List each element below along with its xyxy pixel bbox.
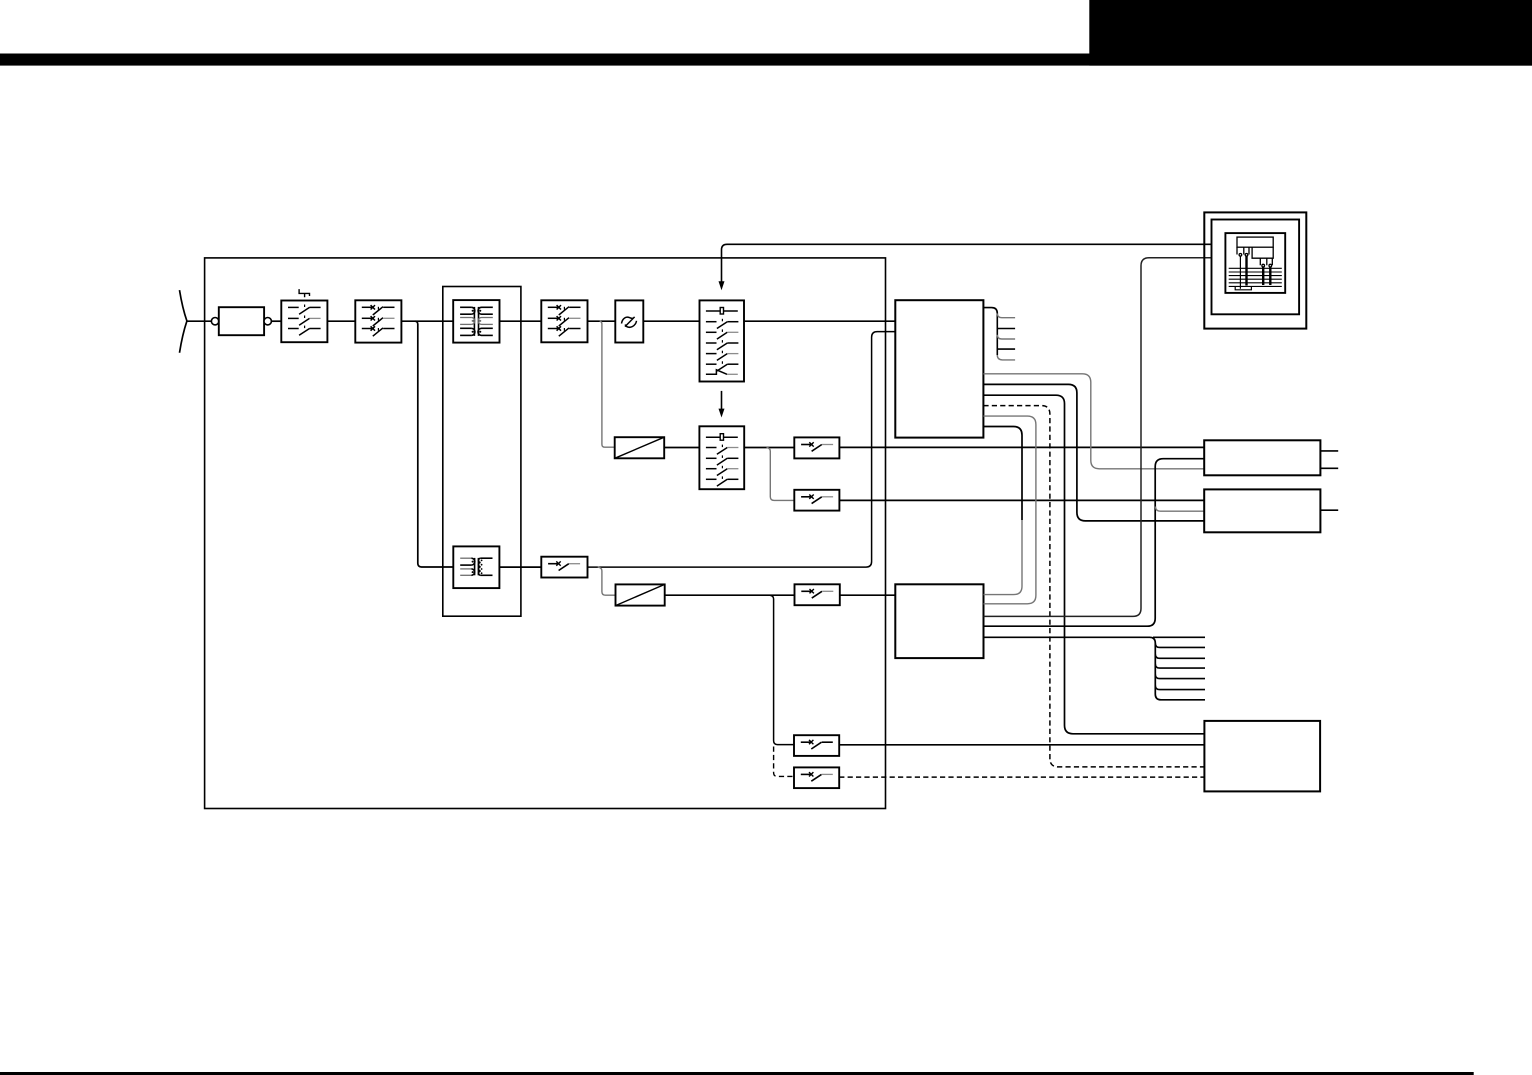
- upper unit pin fan: [983, 308, 1015, 360]
- relay SW2: [794, 490, 839, 511]
- wire: antenna to input connector: [187, 320, 212, 322]
- wire: S3 to regulator: [588, 320, 616, 322]
- wire: T2 to switch S4: [499, 566, 541, 568]
- switch S4: [541, 557, 587, 578]
- relay SW3: [795, 584, 840, 605]
- wire: branch to relay SW2: [767, 448, 795, 501]
- wire: S1 to S2: [327, 320, 355, 322]
- receiver box 2 stub: [1320, 509, 1338, 511]
- wire: lower unit to pin comb: [984, 637, 1206, 700]
- switch block A (6-pole tall): [700, 300, 745, 381]
- wire: dashed branch down to relay SW5: [774, 747, 794, 777]
- header rule bar: [0, 54, 1532, 66]
- receiver box 1 stubs: [1320, 451, 1338, 468]
- wire: branch chain to rectifier D1: [600, 321, 615, 447]
- monitor screen box: [1225, 233, 1285, 293]
- rectifier D2: [616, 584, 665, 605]
- wire: B to relay SW1: [744, 447, 794, 449]
- wire: T1 to S3: [500, 320, 542, 322]
- wire: branch down to relay SW4: [770, 595, 794, 744]
- wire bundle 2: upper unit to receiver box 2: [983, 384, 1204, 521]
- wire: gray stub into receiver box 2: [1156, 507, 1205, 512]
- wire: SW1 to receiver box 1: [839, 446, 1204, 448]
- wire: switch block A to upper unit: [744, 320, 895, 322]
- output connector circle: [264, 318, 271, 325]
- wire: S4 right then up to upper unit second input: [588, 332, 896, 567]
- input connector circle: [211, 318, 218, 325]
- disconnect switch S3 (3-pole with x contacts): [541, 300, 587, 342]
- header black title block: [1089, 0, 1532, 66]
- antenna: [180, 290, 187, 353]
- monitor unit inner box: [1212, 220, 1300, 315]
- wire: SW2 to receiver box 2: [839, 499, 1204, 501]
- wire: SW3 to lower unit: [840, 594, 896, 596]
- wire bundle 1: upper unit to receiver box 1 (gray): [983, 374, 1204, 469]
- relay SW5: [794, 767, 839, 788]
- wire bundle 6: down to lower unit: [983, 427, 1022, 521]
- rectifier D1: [615, 437, 665, 458]
- monitor screen diagram: [1229, 237, 1282, 290]
- line filter box: [219, 307, 264, 335]
- disconnect switch S2 (3-pole with x contacts): [355, 300, 401, 342]
- transformer enclosure: [443, 287, 521, 617]
- switch block B (4-pole tall): [699, 426, 744, 489]
- wire bundle 5: gray down to lower unit: [983, 416, 1036, 604]
- relay SW1: [794, 437, 839, 458]
- wire: S2 to transformer T1: [401, 320, 453, 322]
- wire bundle 3: upper unit to receiver box 3: [983, 395, 1204, 734]
- wire: lower unit up to monitor box (gray riser): [984, 258, 1211, 617]
- wire: lower unit up to receiver box 1: [984, 459, 1205, 627]
- wire: dashed SW5 to receiver box 3: [839, 776, 1204, 778]
- receiver box 1: [1204, 440, 1320, 475]
- wire: SW4 to receiver box 3: [839, 744, 1204, 746]
- transformer T2: [453, 546, 499, 588]
- pin comb stubs: [1153, 637, 1205, 689]
- wire: D1 to switch block B: [664, 447, 699, 449]
- wire: chain junction down to transformer T2: [415, 321, 453, 567]
- relay SW4: [794, 735, 839, 756]
- receiver box 2: [1204, 489, 1320, 532]
- breaker S1 (3-pole switch with trip symbol): [281, 289, 327, 342]
- transformer T1: [453, 300, 499, 343]
- lower unit box: [895, 584, 983, 658]
- upper unit box: [895, 300, 983, 437]
- monitor unit outer box: [1204, 212, 1306, 328]
- wire: D2 to relay SW3: [665, 594, 795, 596]
- main enclosure: [205, 258, 886, 809]
- wire: regulator to switch block A: [643, 320, 699, 322]
- receiver box 3: [1204, 721, 1320, 792]
- regulator box (script x symbol): [615, 300, 643, 342]
- wire: branch row3 down to rectifier D2: [598, 567, 616, 595]
- wire: connector to breaker S1: [271, 320, 281, 322]
- wire bundle 4: dashed to receiver box 3: [983, 406, 1204, 767]
- footer rule: [0, 1072, 1474, 1075]
- wire: A to B arrow: [721, 391, 723, 410]
- wire: feedback from control box to A (with arrow): [722, 244, 1211, 282]
